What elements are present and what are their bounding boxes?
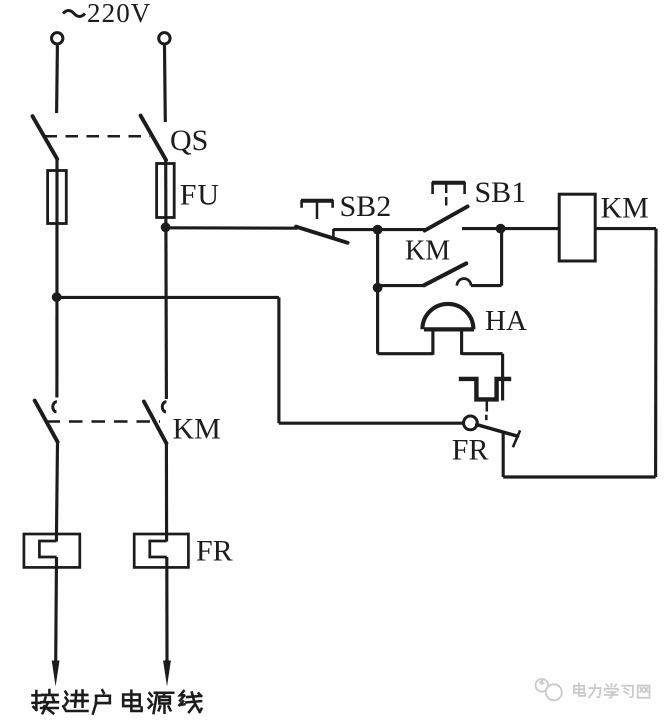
svg-text:QS: QS: [170, 124, 208, 157]
svg-text:FU: FU: [180, 179, 220, 212]
svg-text:KM: KM: [173, 413, 221, 446]
svg-text:SB1: SB1: [475, 176, 527, 209]
svg-text:SB2: SB2: [340, 190, 392, 223]
svg-text:KM: KM: [405, 235, 450, 266]
svg-text:220V: 220V: [87, 0, 151, 28]
svg-text:FR: FR: [452, 434, 489, 467]
svg-text:FR: FR: [196, 535, 233, 568]
svg-text:HA: HA: [485, 305, 527, 337]
svg-text:KM: KM: [601, 192, 649, 225]
